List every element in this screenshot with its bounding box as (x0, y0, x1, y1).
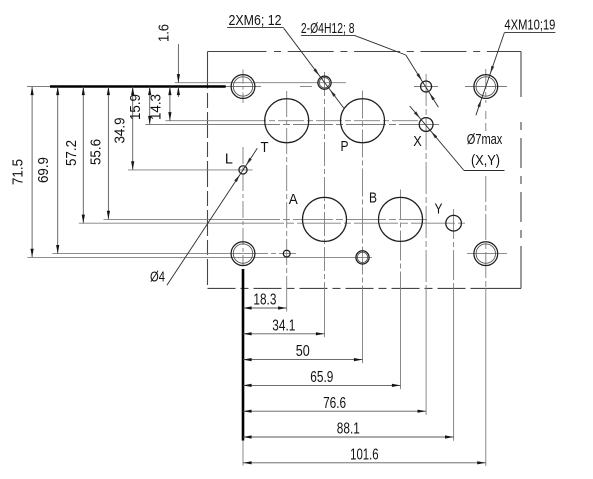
centerline row through A and B ports (55.6) (104, 218, 428, 220)
port A (303, 197, 347, 241)
plate outline right edge (520, 52, 522, 289)
label X (413, 133, 422, 150)
svg-text:55.6: 55.6 (87, 139, 104, 165)
centerline column through right M10 holes, extension to 101.6 dim (485, 69, 487, 466)
label B (369, 189, 377, 206)
svg-text:4XM10;19: 4XM10;19 (504, 17, 555, 34)
extension row line through L hole (34.9) (128, 169, 253, 171)
dimension 55.6 vertical (87, 87, 110, 220)
svg-text:34.1: 34.1 (272, 317, 295, 334)
leader for Ø7max pointing at X hole (410, 106, 464, 171)
port L (Ø4) (239, 166, 247, 174)
svg-text:L: L (225, 150, 233, 167)
label T (261, 139, 269, 156)
centerline column through top-left M10 (242, 70, 244, 104)
centerline column through B port, extension to 65.9 dim (400, 190, 402, 390)
leader for Ø4 pointing at L hole (167, 148, 257, 285)
dimension 34.9 vertical (111, 87, 134, 170)
pin hole Ø4H12 upper (421, 81, 432, 92)
leader for 4XM10 pointing at top-right M10 hole (476, 33, 505, 116)
label P (341, 138, 349, 155)
svg-text:Ø7max: Ø7max (467, 132, 503, 148)
centerline row through bottom M10 and lower pin hole (69.9) (52, 253, 507, 255)
svg-text:15.9: 15.9 (127, 94, 144, 120)
dimension 18.3 horizontal (243, 292, 287, 310)
svg-text:(X,Y): (X,Y) (471, 153, 500, 169)
bold datum extension line horizontal (top M10 row) (27, 86, 226, 88)
label 2-Ø4H12;8 with underline (301, 20, 355, 37)
dimension 15.9 vertical (127, 87, 151, 125)
centerline column through P port and lower M6, extension to 50 dim (362, 91, 364, 364)
port B (379, 197, 423, 241)
pin hole Ø4H12 lower (283, 250, 290, 257)
label Ø4 (150, 270, 165, 286)
svg-text:71.5: 71.5 (10, 159, 27, 185)
svg-text:65.9: 65.9 (310, 369, 333, 386)
port X (419, 118, 433, 132)
dimension 50 horizontal (243, 343, 363, 361)
svg-text:2XM6; 12: 2XM6; 12 (229, 12, 282, 29)
dimension 1.6 vertical (156, 24, 180, 97)
dimension 65.9 horizontal (243, 369, 401, 387)
label 2XM6;12 with underline (227, 12, 284, 29)
label 4XM10;19 with underline (504, 17, 555, 34)
svg-text:1.6: 1.6 (156, 24, 173, 42)
centerline row through T and P ports (14.3) (166, 120, 421, 122)
svg-text:Y: Y (435, 200, 443, 217)
svg-text:T: T (261, 139, 269, 156)
leader for 2-Ø4H12 pointing at upper pin hole (355, 35, 439, 107)
extension row line for upper M6 hole (1.6 above datum) (175, 82, 346, 84)
dimension 71.5 vertical (10, 87, 34, 258)
dimension 88.1 horizontal (243, 421, 454, 439)
svg-text:Ø4: Ø4 (150, 270, 165, 286)
M6 hole upper (318, 76, 331, 89)
dimension 14.3 vertical (147, 87, 171, 121)
dimension 69.9 vertical (35, 87, 59, 254)
svg-text:B: B (369, 189, 377, 206)
centerline column through upper M6 and A port, extension to 34.1 dim (324, 72, 326, 337)
svg-text:69.9: 69.9 (35, 157, 52, 183)
plate outline left edge (207, 52, 209, 289)
leader for 2XM6 pointing at upper M6 hole (284, 28, 344, 108)
centerline column through X hole, extension to 76.6 dim (425, 74, 427, 415)
label Ø7max (X,Y) with shoulder line (464, 132, 505, 171)
svg-text:34.9: 34.9 (111, 118, 128, 144)
svg-text:P: P (341, 138, 349, 155)
svg-text:18.3: 18.3 (253, 292, 276, 309)
svg-text:88.1: 88.1 (337, 421, 360, 438)
dimension 57.2 vertical (63, 87, 85, 224)
port P (341, 99, 385, 143)
svg-text:X: X (413, 133, 422, 150)
port Y (446, 215, 462, 231)
svg-text:14.3: 14.3 (147, 94, 164, 120)
extension row line through X hole (15.9) (146, 124, 441, 126)
svg-text:101.6: 101.6 (350, 446, 379, 463)
svg-text:A: A (289, 191, 298, 208)
label Y (435, 200, 443, 217)
svg-text:57.2: 57.2 (63, 140, 80, 166)
centerline column through L and bottom-left M10 (242, 147, 244, 267)
svg-text:50: 50 (296, 343, 310, 360)
mounting hole M10 top-right (474, 75, 498, 99)
dimension 76.6 horizontal (243, 395, 426, 413)
mounting hole M10 top-left (231, 75, 255, 99)
mounting hole M10 bottom-right (474, 242, 498, 266)
centerline column through T port and lower pin hole, extension to 18.3 dim (286, 91, 288, 312)
svg-text:76.6: 76.6 (323, 395, 346, 412)
plate outline bottom edge (208, 287, 522, 289)
label A (289, 191, 298, 208)
label L (225, 150, 233, 167)
dimension 101.6 horizontal (243, 446, 486, 464)
mounting hole M10 bottom-left (231, 242, 255, 266)
centerline column through Y hole, extension to 88.1 dim (453, 209, 455, 441)
centerline row through datum M10 holes and upper pin hole (224, 86, 507, 88)
extension row line through lower M6 (71.5) (27, 256, 372, 258)
svg-text:2-Ø4H12; 8: 2-Ø4H12; 8 (301, 20, 355, 37)
plate outline top edge (208, 51, 522, 53)
M6 hole lower (356, 251, 369, 264)
extension row line through Y hole (57.2) (79, 222, 466, 224)
port T (265, 99, 309, 143)
bold datum extension line vertical (left M10 column) (242, 269, 245, 466)
dimension 34.1 horizontal (243, 317, 325, 335)
